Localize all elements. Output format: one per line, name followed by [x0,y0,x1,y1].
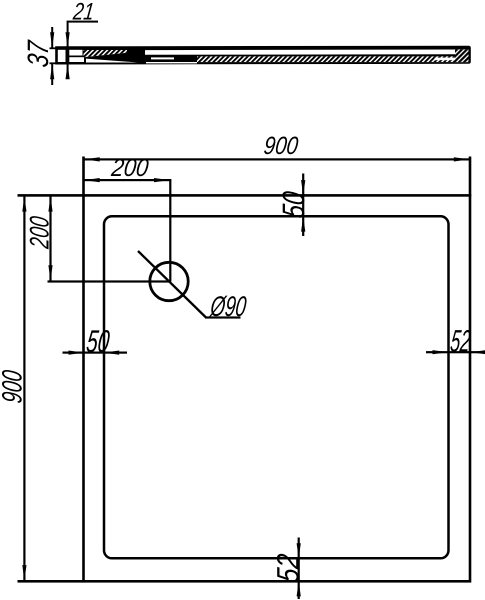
svg-text:Ø90: Ø90 [208,291,248,323]
section left wedge hatch [84,50,128,57]
dim 200 left line [49,195,51,281]
drain circle [150,262,188,300]
section drain white dash [151,57,174,59]
dim 37 extension bottom [50,62,59,64]
dim 21 arrow down [66,32,70,48]
dim 50 left line [63,352,128,354]
dim 200 top arrow right [154,178,170,182]
dim 52 bottom line [298,538,300,600]
section rim hollow right lower [69,57,84,62]
dim 50 left arrow left [104,351,120,355]
section floor hatch band [197,56,455,62]
inner square rounded [104,216,449,558]
dim 37 line lower [51,64,53,86]
extension drain horizontal [48,280,170,282]
dim 52 bottom arrow down [297,543,301,559]
dim 900 top arrow left [84,157,100,161]
section gap above floor [145,50,455,55]
section drain slit [146,62,197,63]
dim 200 left arrow top [48,196,52,212]
dim 37 arrow down [50,32,54,48]
dim 37 line upper [51,27,53,48]
dim 37 arrow up [50,64,54,79]
extension bottom edge left [18,580,84,583]
dim 900 left arrow bottom [22,565,26,581]
dim 900 top line [84,158,471,160]
extension top edge left [18,194,84,197]
section end block hatch [455,49,469,62]
section rim hollow left [58,50,66,62]
section right wisp [435,58,455,61]
dim 21 arrow up [66,64,70,79]
extension outer left edge up [82,157,85,197]
extension drain vertical [169,179,171,282]
dim 21 line [67,21,98,23]
section rim hollow right upper [69,50,82,56]
svg-text:200: 200 [109,154,150,182]
section profile silhouette [55,46,471,65]
dim 200 left arrow bottom [48,265,52,281]
section white sliver under slope [86,59,138,63]
dim 52 right arrow left [471,350,485,354]
outer square [84,195,471,581]
drain leader underline [205,316,241,318]
dim 50 top arrow up [301,216,305,232]
dim 50 top line [302,174,304,237]
dim 37 extension top [50,47,59,49]
dim 200 top line [84,179,171,181]
svg-text:52: 52 [271,552,306,584]
svg-text:900: 900 [262,132,299,160]
dim 200 top arrow left [84,178,100,182]
dim 900 left line [23,195,25,581]
drain leader diagonal [138,251,206,318]
dim 900 top arrow right [454,157,470,161]
dim 21 extension vertical [67,22,69,79]
dim 52 bottom arrow up [297,581,301,597]
svg-text:50: 50 [276,189,311,220]
dim 52 right line [426,351,485,353]
extension outer right edge up [469,157,472,197]
dim 52 right arrow [433,350,449,354]
dim 50 top arrow down [301,180,305,196]
dim 900 left arrow top [22,196,26,212]
dim 50 left arrow right [69,351,85,355]
